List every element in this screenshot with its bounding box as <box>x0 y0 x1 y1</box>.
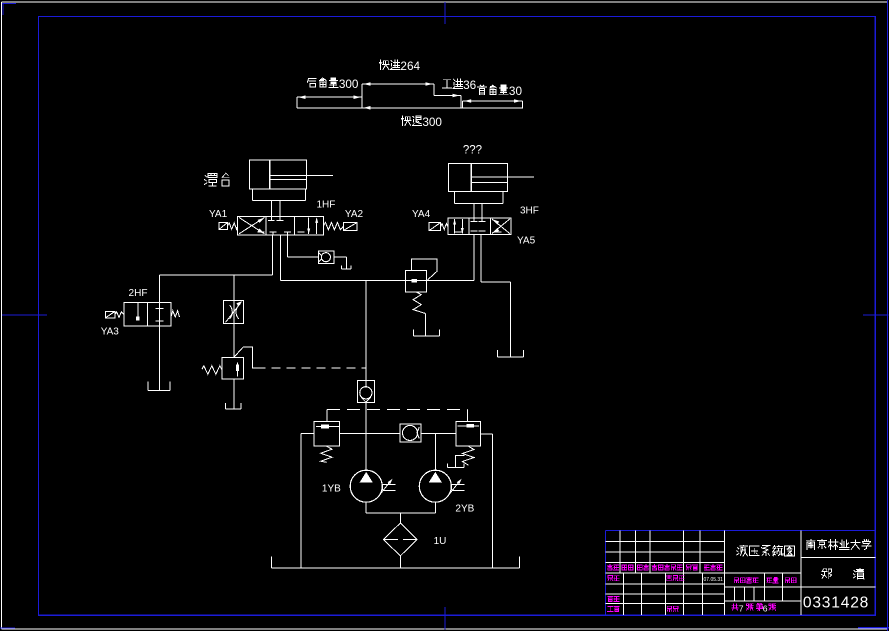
svg-text:1YB: 1YB <box>322 484 341 495</box>
arrowheads on motion diagram <box>299 82 522 109</box>
spring (2HF solenoid side) <box>115 312 124 318</box>
cylinder C1 mounting funnel <box>252 189 305 201</box>
valve 3HF body (3-position 4-way) <box>448 218 511 235</box>
pilot wire dashed (relief valves) <box>327 409 468 411</box>
filter 1U <box>383 523 417 556</box>
wire cylinder C2 port A <box>473 203 475 221</box>
svg-text:3HF: 3HF <box>520 205 539 216</box>
wire filter to tank <box>399 556 401 568</box>
svg-text:6: 6 <box>763 603 768 613</box>
cylinder C1 piston <box>269 160 271 189</box>
wire 1HF port P down to pressure manifold <box>280 235 282 280</box>
wire manifold to 2HF <box>160 275 273 303</box>
spring (PV1 left) <box>202 366 222 374</box>
outer blue corner accent top-left <box>2 3 16 15</box>
wire UV1 spring to tank <box>425 314 427 337</box>
svg-text:YA1: YA1 <box>209 209 228 220</box>
label 标记 <box>607 565 618 570</box>
wire manifold junction down to check valve CV2 <box>365 280 367 387</box>
svg-text:30: 30 <box>509 85 523 98</box>
svg-text:YA4: YA4 <box>412 209 431 220</box>
motion diagram rear-reserve segment (upper line left) <box>297 97 362 108</box>
wire cylinder C1 port A <box>270 201 272 221</box>
label 更改文件号 <box>652 565 682 570</box>
spring (1HF left) <box>227 223 237 229</box>
relief valve RV2 body <box>456 421 480 446</box>
centering mark right <box>863 314 889 316</box>
label 工进36 <box>442 79 476 92</box>
solenoid YA2 <box>344 223 357 231</box>
relief valve RV2 internal arrow <box>458 424 480 428</box>
motion diagram baseline wire <box>297 107 523 109</box>
wire pilot to relief RV2 <box>467 410 469 422</box>
svg-text:7: 7 <box>739 603 744 613</box>
spring (3HF left) <box>441 224 448 230</box>
pilot wire dashed (PV1 to pump line) <box>257 367 366 369</box>
motion diagram fast-advance box <box>362 84 434 108</box>
centering mark top <box>444 2 446 24</box>
cylinder C2 (right) body <box>449 164 508 192</box>
valve 2HF left position blocked <box>136 303 139 321</box>
svg-text:0331428: 0331428 <box>803 594 869 611</box>
label 重量 <box>767 577 779 583</box>
label 处数 <box>622 565 633 570</box>
svg-text:2HF: 2HF <box>129 288 148 299</box>
cylinder C1 rod <box>270 175 333 179</box>
label 工艺 <box>608 606 620 611</box>
label 年月日 <box>704 565 722 570</box>
unloading valve UV1 body <box>405 271 426 292</box>
tank T5 <box>413 329 439 336</box>
svg-text:YA2: YA2 <box>345 209 364 220</box>
label 快退300 <box>401 116 442 129</box>
svg-text:YA5: YA5 <box>517 236 536 247</box>
svg-text:300: 300 <box>339 78 359 91</box>
pressure valve PV1 (sequence) body <box>222 358 243 379</box>
tank T4 <box>497 350 523 357</box>
pilot bracket RV2 <box>456 455 465 467</box>
label 审核 <box>608 597 619 602</box>
label 批准 <box>667 606 678 611</box>
wire pilot to relief RV1 <box>326 410 328 422</box>
centering mark left <box>2 314 47 316</box>
valve 3HF left position straight flows <box>453 219 464 234</box>
label 快进264 <box>379 60 420 73</box>
svg-text:36: 36 <box>463 79 477 92</box>
title block grid verticals <box>620 531 801 616</box>
centering mark bottom <box>444 607 446 630</box>
name 郑清 <box>822 568 865 579</box>
spring (2HF right side) <box>171 311 180 317</box>
spring (1HF right) <box>323 222 343 229</box>
spring (UV1 bottom) <box>413 292 425 314</box>
tank T1 <box>342 265 351 269</box>
svg-text:???: ??? <box>463 145 482 157</box>
check valve CV1 <box>318 251 334 264</box>
valve 1HF body (3-position 4-way) <box>238 216 324 235</box>
valve 2HF body (2-position 2-way) <box>124 303 171 327</box>
wire tank return right <box>492 434 494 568</box>
spring (RV2 bottom) <box>462 446 474 465</box>
title block grid horizontals <box>605 541 875 603</box>
label 阶段标记 <box>734 578 758 583</box>
relief valve RV1 body <box>314 422 339 447</box>
tank T2 <box>226 403 242 409</box>
wire tank return left <box>300 433 302 568</box>
label 设计 <box>608 576 619 581</box>
outer blue sheet edge right <box>887 0 889 631</box>
svg-text:07.05.31: 07.05.31 <box>704 577 724 583</box>
valve 2HF right position open flow <box>156 303 164 327</box>
tank T3 <box>148 382 170 391</box>
pump 1YB control symbol <box>377 479 395 498</box>
outer blue corner accent bottom-left <box>0 627 15 629</box>
valve 3HF centre closed ports <box>455 222 501 232</box>
label 比例 <box>785 578 796 583</box>
check valve CV3 <box>400 424 421 442</box>
valve 1HF centre closed ports <box>258 220 305 235</box>
label 标准化 <box>667 575 685 580</box>
svg-text:1U: 1U <box>434 536 447 547</box>
label 分区 <box>637 565 648 570</box>
tank TB (main reservoir) <box>272 556 520 568</box>
pilot loop UV1 <box>412 259 437 280</box>
valve 1HF right position straight flows <box>307 217 318 234</box>
label 后备量300 <box>307 78 358 91</box>
solenoid YA4 <box>429 222 441 230</box>
solenoid YA3 <box>106 311 116 318</box>
wire PV1 to tank <box>233 379 235 409</box>
solenoid YA1 <box>219 223 228 230</box>
svg-text:264: 264 <box>400 60 420 73</box>
title 液压系统图 <box>737 545 795 556</box>
wire 1HF port A down <box>272 235 274 275</box>
wire suction collector <box>366 513 435 523</box>
svg-text:300: 300 <box>422 116 442 129</box>
wire CV1 to tank <box>334 257 346 269</box>
title 南京林业大学 <box>806 539 870 549</box>
wire pump manifold segments <box>301 432 493 435</box>
title block outline (blue) <box>605 531 875 616</box>
outer blue sheet edge bottom-right segment <box>858 627 889 629</box>
pilot line PV1 <box>234 347 257 368</box>
valve 3HF right position crossed flows <box>492 219 510 234</box>
wire 1HF port T to check valve <box>288 235 319 257</box>
svg-text:YA3: YA3 <box>101 326 120 337</box>
wire 2HF to tank <box>159 326 161 390</box>
wire cylinder C1 port B <box>279 201 281 221</box>
spring (RV1 bottom) <box>321 446 332 462</box>
svg-text:1HF: 1HF <box>317 200 336 211</box>
motion diagram work-feed step <box>434 96 461 108</box>
tank T6 <box>447 463 464 467</box>
wire throttle to pressure valve <box>233 323 235 357</box>
motion diagram front-reserve segment <box>463 101 523 108</box>
pump 2YB control symbol <box>446 479 464 498</box>
relief valve RV1 internal arrow <box>316 425 339 429</box>
label 签名 <box>687 565 698 570</box>
cylinder C2 mounting funnel <box>455 192 504 204</box>
pump 1YB <box>350 433 382 513</box>
cylinder C2 rod <box>471 177 533 183</box>
label 2HF <box>129 288 148 299</box>
pump 2YB <box>419 434 451 513</box>
valve 1HF left position crossed flows <box>239 218 265 234</box>
cylinder C2 piston <box>470 164 472 192</box>
throttle valve FT1 <box>223 301 243 324</box>
wire manifold to throttle <box>233 275 235 301</box>
unloading valve UV1 internal arrow <box>411 279 417 282</box>
wire CV2 down to pump manifold <box>365 402 367 433</box>
wire cylinder C2 port B <box>481 203 483 221</box>
wire pressure manifold (1HF to 3HF) <box>281 279 474 281</box>
cylinder C1 (left, slide table) body <box>250 160 307 189</box>
svg-text:2YB: 2YB <box>455 504 474 515</box>
wire 3HF port T to tank <box>481 235 510 358</box>
label 首备量30 <box>478 85 523 98</box>
pressure valve PV1 internal arrow <box>236 362 239 376</box>
wire 3HF port P down to manifold <box>473 235 475 281</box>
label 滑台 <box>205 173 230 186</box>
check valve CV2 <box>357 380 374 402</box>
label 共7张 第6张 <box>732 603 776 613</box>
